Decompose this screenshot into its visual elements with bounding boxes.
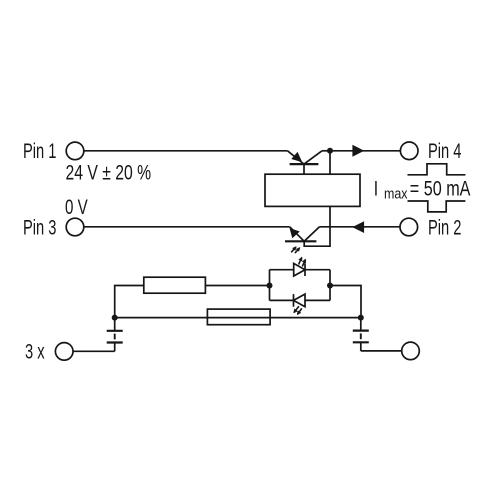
wire collector to node A xyxy=(322,150,330,152)
waveform pulse high at Pin 4 xyxy=(408,164,466,175)
wire top side left xyxy=(270,269,294,271)
svg-text:0 V: 0 V xyxy=(65,194,88,218)
arrow input direction from Pin 2 xyxy=(352,221,364,233)
transistor Q1 base bar xyxy=(290,163,319,165)
capacitor C1 bottom lead xyxy=(114,343,116,352)
node left LED junction dot xyxy=(267,283,273,289)
svg-text:Pin 1: Pin 1 xyxy=(23,139,56,162)
transistor Q2 base bar xyxy=(285,240,316,242)
svg-text:I: I xyxy=(374,176,378,200)
wire Pin3 to transistor Q2 emitter xyxy=(84,226,290,228)
node C junction dot xyxy=(358,315,364,321)
waveform pulse low at Pin 2 xyxy=(408,201,466,212)
capacitor C1 middle tick xyxy=(114,334,116,340)
light arrow into phototransistor Q2 (2) xyxy=(295,248,300,253)
wire top side right xyxy=(305,269,330,271)
svg-text:= 50 mA: = 50 mA xyxy=(410,176,471,200)
capacitor C2 top lead xyxy=(360,318,362,331)
transistor Q1 emitter arrow (PNP, into base) xyxy=(291,152,302,162)
node Pin 1 terminal circle xyxy=(66,142,84,160)
node right LED junction dot xyxy=(327,283,333,289)
LED D2 triangle xyxy=(294,294,306,307)
wire bottom side left xyxy=(270,299,294,301)
arrow output direction to Pin 4 xyxy=(352,145,364,157)
transistor Q1 emitter diagonal xyxy=(288,151,305,164)
LED D1 light arrow (1) xyxy=(299,258,302,265)
node 3x terminal circle xyxy=(55,343,73,361)
capacitor C1 bottom plate xyxy=(107,341,123,343)
IC U1 control box xyxy=(265,174,360,206)
resistor R1 xyxy=(144,277,206,293)
LED D2 light arrow (1) xyxy=(294,306,299,312)
transistor Q2 base lead L-path to box xyxy=(304,206,330,246)
LED pair left rail xyxy=(269,270,271,301)
wire R1 left with corner down xyxy=(115,286,144,318)
wire node B to fuse and node C xyxy=(115,317,361,319)
node Pin 3 terminal circle xyxy=(66,218,84,236)
wire node A down to box xyxy=(329,151,331,174)
svg-text:Pin 4: Pin 4 xyxy=(428,140,461,163)
transistor Q2 emitter diagonal xyxy=(290,227,305,242)
svg-text:Pin 2: Pin 2 xyxy=(428,216,461,239)
capacitor C1 top plate xyxy=(107,330,123,332)
fuse F1 xyxy=(207,309,270,325)
node right terminal circle xyxy=(402,342,420,360)
wire 3x terminal to C1 xyxy=(73,350,115,352)
svg-text:24 V ± 20 %: 24 V ± 20 % xyxy=(66,160,152,184)
svg-text:max: max xyxy=(384,185,408,201)
svg-text:Pin 3: Pin 3 xyxy=(23,216,56,239)
capacitor C1 top lead xyxy=(114,318,116,331)
capacitor C2 bottom lead xyxy=(360,342,362,351)
transistor Q1 base lead to box xyxy=(303,164,305,174)
LED pair right rail xyxy=(329,270,331,301)
wire collector to Pin 2 xyxy=(320,226,401,228)
transistor Q2 emitter arrow (into base) xyxy=(290,228,300,238)
wire R1 to LED left dot xyxy=(205,285,269,287)
node Pin 2 terminal circle xyxy=(400,218,418,236)
node B junction dot xyxy=(112,315,118,321)
wire C2 to right terminal xyxy=(361,350,402,352)
node A junction dot xyxy=(327,148,333,154)
LED D1 light arrow (2) xyxy=(302,260,305,267)
wire Pin1 to transistor emitter xyxy=(84,150,288,152)
wire node A to Pin 4 xyxy=(330,150,401,152)
light arrow into phototransistor Q2 (1) xyxy=(291,247,296,252)
LED D1 triangle xyxy=(294,263,305,276)
capacitor C2 bottom plate xyxy=(353,341,369,343)
wire bottom side right xyxy=(305,299,330,301)
LED D2 cathode bar xyxy=(293,294,295,307)
capacitor C2 middle tick xyxy=(360,333,362,339)
node Pin 4 terminal circle xyxy=(400,142,418,160)
transistor Q2 collector diagonal xyxy=(304,227,319,242)
transistor Q1 collector diagonal xyxy=(304,151,322,164)
capacitor C2 top plate xyxy=(353,330,369,332)
LED D2 light arrow (2) xyxy=(298,308,302,314)
wire LED right dot to node C xyxy=(330,286,361,318)
svg-text:3 x: 3 x xyxy=(25,340,45,363)
LED D1 cathode bar xyxy=(304,263,306,276)
